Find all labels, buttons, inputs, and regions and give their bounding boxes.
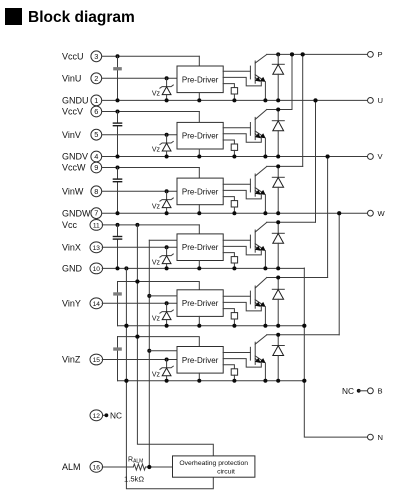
wire cap column channel Y <box>117 282 119 326</box>
resistor RALM 1.5k <box>124 457 146 484</box>
svg-text:Pre-Driver: Pre-Driver <box>182 299 219 308</box>
node GND / X emitter rail <box>102 266 304 270</box>
capacitor CZ (Vcc-GND decoupling) <box>113 347 122 350</box>
pin 12 terminal <box>90 410 103 421</box>
svg-text:15: 15 <box>93 357 101 364</box>
svg-text:Vz: Vz <box>152 147 161 154</box>
terminal B NC marking <box>342 386 367 396</box>
svg-text:Overheating protection: Overheating protection <box>179 460 248 467</box>
wire VinX input row <box>102 245 177 249</box>
node Y emitter rail <box>118 324 307 328</box>
wire pre-driver ground stub channel U <box>198 93 200 101</box>
pre-driver U2 channel V <box>177 122 223 149</box>
svg-text:ALM: ALM <box>62 462 81 472</box>
svg-text:GNDV: GNDV <box>62 152 88 162</box>
wire emitter sense feedback channel Y <box>223 302 261 311</box>
svg-text:GND: GND <box>62 264 83 274</box>
wire Vcc feed channel X <box>102 223 199 234</box>
svg-text:W: W <box>378 209 386 218</box>
svg-text:Pre-Driver: Pre-Driver <box>182 132 219 141</box>
svg-text:VccU: VccU <box>62 52 84 62</box>
svg-text:6: 6 <box>94 107 98 116</box>
svg-text:VinW: VinW <box>62 187 84 197</box>
wire ALM row <box>102 466 172 468</box>
svg-text:11: 11 <box>93 222 100 229</box>
pin 8 VinW terminal <box>62 186 102 197</box>
wire emitter sense feedback channel X <box>223 246 261 255</box>
svg-text:VccW: VccW <box>62 163 86 173</box>
wire cap column channel Z <box>117 337 119 381</box>
capacitor CY (Vcc-GND decoupling) <box>113 292 122 295</box>
zener diode Vz channel V <box>152 135 173 157</box>
svg-text:Vz: Vz <box>152 203 161 210</box>
wire collector node row channel V <box>267 52 294 111</box>
diode DV freewheel <box>272 110 284 157</box>
svg-text:circuit: circuit <box>217 468 235 475</box>
diode DZ freewheel <box>272 335 284 381</box>
capacitor CX (Vcc-GND decoupling) <box>113 236 123 240</box>
pin 14 VinY terminal <box>62 298 103 309</box>
svg-text:N: N <box>378 433 383 442</box>
zener diode Vz channel W <box>152 191 173 213</box>
node P rail <box>267 52 367 56</box>
svg-text:16: 16 <box>93 464 101 471</box>
svg-text:Vz: Vz <box>152 315 161 322</box>
wire VinV input row <box>102 133 177 137</box>
node U output rail <box>102 98 367 102</box>
svg-text:3: 3 <box>94 52 98 61</box>
pin 4 GNDV terminal <box>62 151 102 162</box>
svg-text:Pre-Driver: Pre-Driver <box>182 75 219 84</box>
svg-text:13: 13 <box>93 245 101 252</box>
wire Vcc feed channel Y <box>118 280 200 290</box>
wire Vcc feed channel Z <box>118 335 200 347</box>
pre-driver U1 channel U <box>177 66 223 93</box>
wire cap column channel V <box>117 112 119 157</box>
pin 2 VinU terminal <box>62 73 102 84</box>
pin 5 VinV terminal <box>62 129 102 140</box>
pre-driver U4 channel X <box>177 234 223 261</box>
op-amp overheating protection circuit block <box>173 456 255 477</box>
capacitor CV (VccV-GND decoupling) <box>113 122 123 126</box>
wire pre-driver ground stub channel W <box>198 205 200 214</box>
pre-driver U5 channel Y <box>177 290 223 317</box>
wire Vcc feed channel W <box>102 166 199 179</box>
pin 7 GNDW terminal <box>62 208 102 219</box>
svg-text:14: 14 <box>93 301 101 308</box>
terminal B <box>368 387 383 396</box>
diode DW freewheel <box>272 166 284 213</box>
svg-text:NC: NC <box>110 411 122 421</box>
zener diode Vz channel U <box>152 78 173 100</box>
svg-text:VinY: VinY <box>62 299 81 309</box>
svg-text:1: 1 <box>94 96 98 105</box>
capacitor CW (VccW-GND decoupling) <box>113 178 123 182</box>
pin 12 NC marking <box>103 411 122 421</box>
terminal U <box>368 96 383 105</box>
svg-text:5: 5 <box>94 130 98 139</box>
wire Vcc bus (low side) to protection circuit <box>135 225 213 456</box>
pin 16 ALM terminal <box>62 461 103 472</box>
pin 11 Vcc terminal <box>62 220 103 231</box>
svg-text:4: 4 <box>94 152 98 161</box>
svg-text:2: 2 <box>94 74 98 83</box>
resistor current-sense square channel Y <box>223 309 237 326</box>
node V output rail <box>102 155 367 159</box>
wire collector node row channel Z <box>267 211 341 337</box>
wire emitter sense feedback channel Z <box>223 359 261 368</box>
diode DY freewheel <box>272 278 284 326</box>
svg-text:Vcc: Vcc <box>62 220 78 230</box>
svg-text:NC: NC <box>342 386 354 396</box>
wire cap column channel X <box>117 225 119 269</box>
pin 6 VccV terminal <box>62 106 102 117</box>
resistor current-sense square channel W <box>223 197 237 214</box>
terminal P <box>368 50 383 59</box>
wire VinY input row <box>102 301 177 305</box>
svg-text:Block diagram: Block diagram <box>28 9 135 26</box>
diode DU freewheel <box>272 54 284 100</box>
node Z emitter rail <box>118 379 307 383</box>
wire emitter sense feedback channel V <box>223 134 261 143</box>
wire VinW input row <box>102 189 177 193</box>
svg-text:9: 9 <box>94 163 98 172</box>
resistor current-sense square channel X <box>223 253 237 269</box>
svg-text:GNDU: GNDU <box>62 96 89 106</box>
pin 1 GNDU terminal <box>62 95 102 106</box>
pre-driver U3 channel W <box>177 178 223 205</box>
svg-text:VccV: VccV <box>62 107 83 117</box>
svg-text:Vz: Vz <box>152 259 161 266</box>
wire pre-driver ground stub channel V <box>198 149 200 157</box>
capacitor CU (VccU-GND decoupling) <box>113 67 122 70</box>
pin 13 VinX terminal <box>62 242 103 253</box>
transistor IGBT QZ gate/collector/emitter <box>223 335 267 381</box>
zener diode Vz channel Z <box>152 360 173 381</box>
svg-text:VinX: VinX <box>62 243 81 253</box>
zener diode Vz channel Y <box>152 303 173 325</box>
resistor current-sense square channel U <box>223 84 237 101</box>
wire cap column channel U <box>117 56 119 100</box>
node N bus <box>302 268 367 437</box>
terminal N <box>368 433 383 442</box>
transistor IGBT QV gate/collector/emitter <box>223 110 267 157</box>
title text "Block diagram" <box>28 9 135 26</box>
svg-text:VinZ: VinZ <box>62 355 81 365</box>
wire Vcc feed channel U <box>102 54 199 66</box>
svg-text:U: U <box>378 96 383 105</box>
transistor IGBT QY gate/collector/emitter <box>223 278 267 326</box>
pre-driver U6 channel Z <box>177 347 223 374</box>
pin 3 VccU terminal <box>62 51 102 62</box>
wire pre-driver ground stub channel Z <box>198 373 200 381</box>
node W output rail <box>102 211 367 215</box>
svg-text:10: 10 <box>93 266 101 273</box>
resistor current-sense square channel V <box>223 140 237 157</box>
svg-text:12: 12 <box>93 413 101 420</box>
pin 10 GND terminal <box>62 263 103 274</box>
wire fault/ALM bus to low-side pre-drivers <box>147 240 177 467</box>
svg-text:8: 8 <box>94 187 98 196</box>
svg-text:VinV: VinV <box>62 130 81 140</box>
pin 15 VinZ terminal <box>62 354 103 365</box>
wire Vcc feed channel V <box>102 110 199 123</box>
wire cap column channel W <box>117 168 119 214</box>
svg-text:GNDW: GNDW <box>62 208 91 218</box>
diode DX freewheel <box>272 222 284 268</box>
node ALM junction <box>147 465 151 469</box>
wire emitter sense feedback channel W <box>223 190 261 199</box>
transistor IGBT QU gate/collector/emitter <box>223 54 267 100</box>
svg-text:Pre-Driver: Pre-Driver <box>182 187 219 196</box>
svg-text:1.5kΩ: 1.5kΩ <box>124 475 144 484</box>
svg-text:Pre-Driver: Pre-Driver <box>182 356 219 365</box>
wire emitter sense feedback channel U <box>223 77 261 86</box>
terminal W <box>368 209 386 218</box>
svg-text:B: B <box>378 387 383 396</box>
svg-text:VinU: VinU <box>62 74 81 84</box>
wire GND bus (low side) to protection circuit <box>124 268 213 489</box>
wire collector node row channel W <box>267 52 305 168</box>
pin 9 VccW terminal <box>62 162 102 173</box>
svg-text:Vz: Vz <box>152 372 161 379</box>
svg-text:7: 7 <box>94 209 98 218</box>
resistor current-sense square channel Z <box>223 365 237 381</box>
zener diode Vz channel X <box>152 247 173 268</box>
wire VinZ input row <box>102 358 177 362</box>
wire pre-driver ground stub channel Y <box>198 316 200 325</box>
svg-text:RALM: RALM <box>128 457 143 465</box>
transistor IGBT QW gate/collector/emitter <box>223 166 267 213</box>
wire pre-driver ground stub channel X <box>198 261 200 269</box>
wire VinU input row <box>102 76 177 80</box>
wire collector node row channel Y <box>267 155 330 280</box>
title bullet square <box>5 8 22 25</box>
svg-text:Vz: Vz <box>152 90 161 97</box>
terminal V <box>368 152 384 161</box>
transistor IGBT QX gate/collector/emitter <box>223 222 267 268</box>
svg-text:P: P <box>378 50 383 59</box>
wire collector node row channel X <box>267 98 318 224</box>
svg-text:Pre-Driver: Pre-Driver <box>182 243 219 252</box>
